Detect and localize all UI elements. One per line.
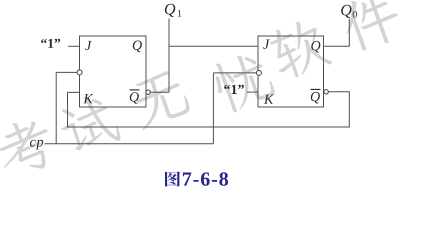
wire "1" to J1 xyxy=(68,45,80,47)
flip-flop U1 box xyxy=(80,36,147,107)
pin Q-bar1 xyxy=(130,92,139,104)
wire cp to CK2 xyxy=(213,73,256,144)
wire Q-bar2 feedback to K1 xyxy=(68,92,350,127)
wire cp horizontal xyxy=(45,143,214,145)
watermark char 试 xyxy=(54,90,122,158)
wire node Q1 to J2 xyxy=(169,45,258,47)
node label Q1 xyxy=(165,4,175,17)
output bubble Q-bar2 xyxy=(324,90,328,94)
node label Q0 subscript xyxy=(353,11,357,18)
pin Q-bar2 xyxy=(311,92,320,104)
wire Q-bar1 to node vertical xyxy=(150,91,169,93)
label "1" at K2 xyxy=(224,85,244,94)
watermark char 无 xyxy=(126,68,192,131)
caption text 7-6-8 xyxy=(183,172,228,185)
wire cp branch to CK1 xyxy=(56,72,77,143)
pin J2 xyxy=(263,40,270,49)
wire node Q1 vertical xyxy=(168,19,170,93)
wire Q2 up to Q0 label xyxy=(324,19,350,47)
pin Q2 xyxy=(311,41,320,53)
pin Q1 xyxy=(133,41,142,53)
pin J1 xyxy=(85,41,92,50)
label "1" at J1 xyxy=(41,39,60,48)
wire "1" to K2 xyxy=(247,91,258,93)
pin K1 xyxy=(83,94,93,103)
label cp xyxy=(30,140,43,150)
overbar of Q-bar2 xyxy=(311,88,321,90)
clock bubble U1 xyxy=(77,70,82,75)
watermark char 考 xyxy=(0,113,59,181)
clock bubble U2 xyxy=(256,70,261,75)
node label Q0 xyxy=(341,5,351,18)
watermark char 软 xyxy=(265,15,333,82)
caption character 图 xyxy=(165,171,180,186)
output bubble Q-bar1 xyxy=(146,90,150,94)
flip-flop U2 box xyxy=(258,36,324,107)
watermark char 件 xyxy=(336,0,405,55)
watermark char 忧 xyxy=(209,48,277,115)
pin K2 xyxy=(264,95,274,104)
overbar of Q-bar1 xyxy=(130,89,140,91)
node label Q1 subscript xyxy=(178,10,182,17)
